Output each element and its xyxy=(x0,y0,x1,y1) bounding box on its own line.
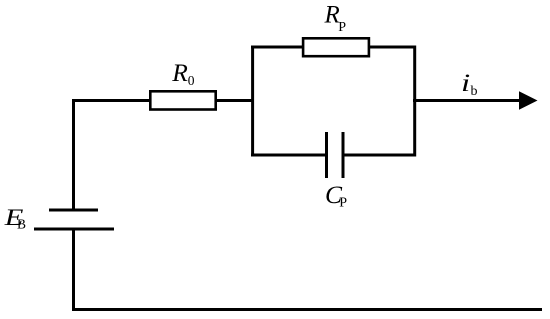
wire: bottom return rail xyxy=(72,308,542,311)
label EB xyxy=(4,205,26,232)
wire: parallel block left vertical xyxy=(251,46,254,157)
label R0 xyxy=(171,58,195,88)
wire: bottom rail left segment to capacitor xyxy=(251,154,327,157)
svg-text:P: P xyxy=(339,196,347,211)
svg-text:P: P xyxy=(338,20,346,35)
resistor R0 xyxy=(150,91,215,109)
svg-text:0: 0 xyxy=(188,73,195,88)
svg-text:R: R xyxy=(171,58,188,87)
wire: series horizontal from left branch to parallel block xyxy=(72,99,254,102)
wire: parallel block right vertical xyxy=(413,46,416,157)
label Rp xyxy=(324,2,347,36)
label Cp xyxy=(325,180,347,211)
battery EB xyxy=(34,210,114,229)
svg-text:b: b xyxy=(471,84,478,99)
label ib xyxy=(461,70,477,99)
wire: left branch upper segment (junction to battery top plate) xyxy=(72,99,75,210)
wire: output current lead xyxy=(413,99,521,102)
wire: parallel block top rail xyxy=(251,46,416,49)
svg-text:i: i xyxy=(461,70,470,98)
capacitor Cp xyxy=(327,132,344,178)
arrowhead: current direction ib xyxy=(519,91,538,110)
wire: left branch lower segment (battery bottom plate to bottom rail) xyxy=(72,229,75,311)
wire: bottom rail right segment from capacitor xyxy=(343,154,416,157)
resistor Rp xyxy=(303,38,369,56)
svg-text:B: B xyxy=(17,217,26,232)
